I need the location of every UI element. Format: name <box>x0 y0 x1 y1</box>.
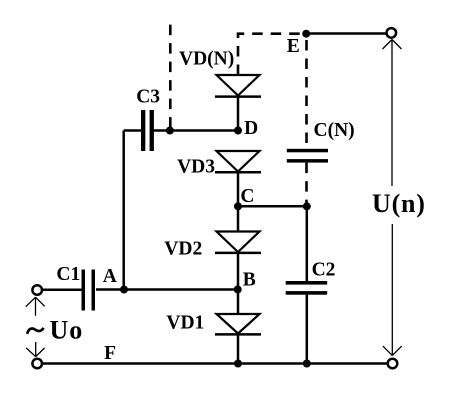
svg-text:D: D <box>244 118 258 139</box>
node: right column junction on C row <box>303 202 311 210</box>
wire: D row from C3 to diode chain <box>154 129 239 132</box>
dashed wire: left stage continuation above node on D row <box>169 25 172 128</box>
svg-text:C3: C3 <box>136 86 160 107</box>
wire: A-B row horizontal <box>96 288 238 291</box>
wire: VD3 cathode to node C <box>237 172 240 206</box>
wire: C row horizontal <box>238 205 307 208</box>
svg-text:F: F <box>104 343 116 364</box>
wire: node C to VD2 anode <box>237 206 240 231</box>
svg-text:Uo: Uo <box>50 316 84 345</box>
node C <box>234 202 242 210</box>
diode VD3 <box>217 151 260 172</box>
wire: node A up to C3 corner <box>122 131 125 290</box>
wire: corner to C3 left plate <box>124 129 142 132</box>
source arrow: up arrowhead toward input top terminal <box>26 297 45 316</box>
measurement arrow U(n): upper shaft with up arrowhead <box>383 40 402 187</box>
svg-text:C2: C2 <box>312 259 336 280</box>
diode VD2 <box>217 232 260 253</box>
capacitor C1 <box>82 270 86 311</box>
wire: VD2 cathode to node B <box>237 253 240 290</box>
wire: input terminal to C1 <box>43 288 82 291</box>
terminal: input top <box>32 285 42 295</box>
terminal: top-right output <box>387 28 397 38</box>
node B <box>234 286 242 294</box>
svg-text:C1: C1 <box>56 264 80 285</box>
svg-text:C: C <box>240 186 254 207</box>
svg-text:VD3: VD3 <box>177 156 215 177</box>
svg-text:VD1: VD1 <box>166 313 204 334</box>
dashed wire: node E down to capacitor C(N) <box>305 40 308 149</box>
svg-text:C(N): C(N) <box>314 120 355 141</box>
svg-text:E: E <box>287 36 300 57</box>
diode VD(N) <box>217 75 260 96</box>
source arrow: down arrowhead toward input bottom terminal <box>26 342 45 357</box>
label ~ (ac source tilde) <box>27 328 43 334</box>
wire: right column from C row down to C2 <box>306 206 309 281</box>
wire: bottom line F row <box>43 362 387 365</box>
capacitor C(N) <box>287 149 328 153</box>
dashed wire: next-stage continuation from VD(N) top to node E <box>238 34 302 75</box>
node: junction of dashed continuation with C3-D wire <box>166 127 174 135</box>
wire: top output line E to terminal <box>306 32 386 35</box>
wire: VD(N) cathode to node D <box>237 97 240 131</box>
dashed wire: C(N) to node on C row <box>305 163 308 203</box>
node E <box>302 30 310 38</box>
diode VD1 <box>217 314 260 334</box>
wire: C2 to bottom line <box>306 295 309 364</box>
svg-text:U(n): U(n) <box>372 189 426 218</box>
svg-text:VD(N): VD(N) <box>179 48 234 69</box>
capacitor C2 <box>286 281 328 285</box>
wire: VD1 cathode to bottom line <box>237 334 240 363</box>
node A <box>120 286 128 294</box>
node: bottom of right column <box>303 360 311 368</box>
svg-text:A: A <box>103 266 117 287</box>
terminal: input bottom <box>32 359 42 369</box>
svg-text:B: B <box>243 270 256 291</box>
svg-text:VD2: VD2 <box>164 238 202 259</box>
node: diode chain bottom <box>234 360 242 368</box>
terminal: bottom-right output <box>388 359 398 369</box>
node D <box>234 127 242 135</box>
capacitor C3 <box>141 110 145 151</box>
wire: node B to VD1 anode <box>237 290 240 315</box>
measurement arrow U(n): lower shaft with down arrowhead <box>383 224 402 356</box>
